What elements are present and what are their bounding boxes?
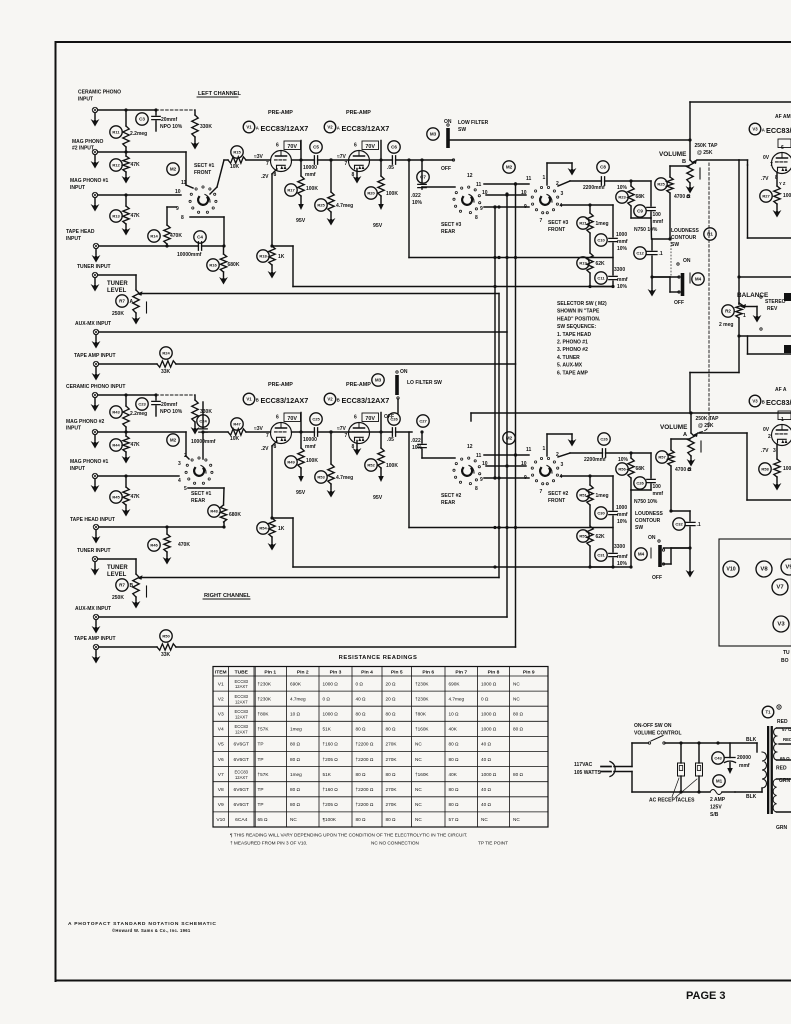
svg-text:¶ THIS READING WILL VARY DE: ¶ THIS READING WILL VARY DEPENDING UPON … [230,833,467,838]
wire feedback bus [293,286,613,288]
svg-text:BALANCE: BALANCE [737,292,769,299]
svg-text:mmf: mmf [617,554,628,560]
svg-text:0 Ω: 0 Ω [356,681,364,686]
svg-text:12AX7: 12AX7 [235,775,248,780]
svg-text:†80K: †80K [415,712,427,717]
wire plug bottom to fuse [614,771,632,773]
wire to loudness node [630,490,632,567]
svg-text:FRONT: FRONT [548,498,565,504]
wire aux-mx [99,616,507,618]
svg-text:TUNER: TUNER [107,281,128,287]
svg-text:NPO 10%: NPO 10% [160,409,183,415]
resistor R27 100K [760,190,772,202]
wire mag phono 1 [98,194,181,196]
svg-text:V1: V1 [246,397,252,402]
wire tuner input [98,558,136,560]
svg-text:Y Z: Y Z [779,181,786,186]
svg-text:ITEM: ITEM [215,670,227,676]
svg-text:mmf: mmf [617,239,628,245]
capacitor C24 10000mmf vertical [197,415,209,427]
svg-text:V4: V4 [218,727,224,733]
wire selector bus vertical 2 [498,294,500,578]
dashed gang line R1 [708,163,710,424]
svg-text:70V: 70V [287,416,297,422]
svg-text:10000: 10000 [303,165,317,171]
svg-text:R17: R17 [287,188,295,193]
svg-text:C4: C4 [197,235,203,240]
svg-text:20 Ω: 20 Ω [386,696,397,701]
switch M4 loudness [635,548,647,560]
svg-text:Pin 4: Pin 4 [361,670,373,676]
svg-text:2 meg: 2 meg [719,322,733,328]
svg-text:250K TAP: 250K TAP [696,416,720,422]
wire V1 cathode to R18 [272,441,277,446]
wire tuner input [98,274,136,276]
capacitor C4 10000mmf [194,231,206,243]
svg-text:9: 9 [480,206,483,212]
wire wafer bus 11 [484,183,529,185]
svg-text:V5: V5 [218,742,224,748]
svg-text:CERAMIC PHONO INPUT: CERAMIC PHONO INPUT [66,384,125,390]
svg-text:10 Ω: 10 Ω [449,712,460,717]
svg-text:SECT #3: SECT #3 [441,222,462,228]
svg-text:10%: 10% [617,246,628,252]
svg-text:7: 7 [770,162,773,168]
svg-text:Pin 5: Pin 5 [391,670,403,676]
capacitor C10 1000mmf [595,234,607,246]
wire to volume A [690,372,739,374]
resistor R48 680K riser [208,505,220,517]
wire loudness junction to switch [652,276,670,278]
svg-text:R54: R54 [259,526,267,531]
svg-text:R13: R13 [112,214,120,219]
svg-text:M2: M2 [506,165,513,170]
svg-text:Pin 9: Pin 9 [523,670,535,676]
svg-text:R57: R57 [658,455,666,460]
svg-text:100: 100 [783,193,791,199]
svg-text:VOLUME CONTROL: VOLUME CONTROL [634,731,682,737]
svg-text:270K: 270K [386,742,398,747]
svg-text:†160K: †160K [415,772,429,777]
svg-text:100K: 100K [306,186,318,192]
svg-text:Pin 7: Pin 7 [455,670,467,676]
resistor R54 1K [257,522,269,534]
svg-text:4: 4 [560,474,563,480]
svg-text:mmf: mmf [653,491,664,497]
svg-text:4.7meg: 4.7meg [336,203,353,209]
svg-text:1meg: 1meg [596,493,609,499]
svg-text:INPUT: INPUT [70,466,85,472]
svg-text:1meg: 1meg [290,727,302,732]
svg-text:@ 25K: @ 25K [698,423,714,429]
svg-text:M3: M3 [375,378,382,383]
svg-text:95V: 95V [296,490,306,496]
svg-text:80 Ω: 80 Ω [290,802,301,807]
svg-text:NC: NC [415,787,422,792]
svg-text:M2: M2 [170,167,177,172]
svg-text:0 Ω: 0 Ω [481,696,489,701]
svg-text:†230K: †230K [258,681,272,686]
svg-text:†230K: †230K [258,696,272,701]
svg-text:†2200 Ω: †2200 Ω [356,802,374,807]
svg-text:†2200 Ω: †2200 Ω [356,757,374,762]
svg-text:20mmf: 20mmf [161,402,177,408]
wire stage output bus [408,432,410,528]
svg-text:80 Ω: 80 Ω [356,817,367,822]
svg-text:3300: 3300 [614,267,625,273]
svg-text:M4: M4 [638,552,645,557]
svg-text:CERAMIC PHONO: CERAMIC PHONO [78,90,121,96]
svg-text:R43: R43 [112,410,120,415]
svg-text:R14: R14 [150,234,158,239]
svg-text:AUX-MX INPUT: AUX-MX INPUT [75,321,111,327]
capacitor C3 20mmf [136,113,148,125]
svg-text:4.7meg: 4.7meg [336,475,353,481]
svg-text:FRONT: FRONT [548,227,565,233]
svg-text:†57K: †57K [258,727,270,732]
svg-text:R11: R11 [112,130,120,135]
svg-text:R7: R7 [119,299,125,304]
svg-text:V1: V1 [246,125,252,130]
svg-text:C11: C11 [597,276,605,281]
svg-text:R25: R25 [317,203,325,208]
svg-text:HEAD" POSITION.: HEAD" POSITION. [557,316,601,322]
svg-text:LEVEL: LEVEL [107,288,127,294]
svg-text:mmf: mmf [305,172,316,178]
resistor R45 47K [110,491,122,503]
svg-text:OFF: OFF [441,166,451,172]
svg-text:11: 11 [526,447,532,453]
svg-text:65 Ω: 65 Ω [258,817,269,822]
capacitor C30 1000mmf [595,507,607,519]
svg-text:11: 11 [476,182,482,188]
svg-text:TP: TP [258,742,264,747]
svg-text:10%: 10% [617,519,628,525]
svg-text:C12: C12 [636,251,644,256]
svg-text:10000mmf: 10000mmf [191,439,216,445]
svg-text:9: 9 [176,206,179,212]
svg-text:CONTOUR: CONTOUR [671,235,697,241]
svg-text:LOUDNESS: LOUDNESS [635,511,663,517]
svg-text:V10: V10 [216,817,225,823]
svg-text:Pin 3: Pin 3 [330,670,342,676]
svg-text:B: B [762,399,765,404]
page border bottom [56,980,791,982]
svg-text:TU: TU [783,650,790,656]
svg-text:OFF: OFF [384,414,394,420]
svg-text:1000 Ω: 1000 Ω [481,681,497,686]
svg-text:R53: R53 [317,475,325,480]
capacitor C26 100mmf [634,477,646,489]
svg-text:80 Ω: 80 Ω [356,727,367,732]
svg-text:250K TAP: 250K TAP [695,143,719,149]
svg-text:.7V: .7V [761,448,769,454]
svg-text:40 Ω: 40 Ω [481,802,492,807]
svg-text:mmf: mmf [617,277,628,283]
svg-text:80 Ω: 80 Ω [449,787,460,792]
svg-text:N750 10%: N750 10% [634,499,658,505]
wire mag2 to wafer [185,432,187,456]
svg-text:80 Ω: 80 Ω [290,757,301,762]
wire dashed link [156,109,195,111]
svg-text:.05: .05 [387,437,394,443]
svg-text:V7: V7 [218,772,224,778]
svg-text:CONTOUR: CONTOUR [635,518,661,524]
svg-text:4.7meg: 4.7meg [449,696,465,701]
svg-text:117VAC: 117VAC [574,762,593,768]
wire selector bus vertical 1 [494,207,496,478]
wire ceramic phono [98,109,156,111]
svg-text:C3: C3 [139,117,145,122]
svg-text:mmf: mmf [653,219,664,225]
svg-text:80 Ω: 80 Ω [386,772,397,777]
svg-text:ECC83: ECC83 [235,724,249,729]
resistor R23 68K [616,191,628,203]
wire dashed link [156,394,195,396]
box V3 B [746,433,748,500]
svg-text:ECC83/12AX7: ECC83/12AX7 [342,124,390,133]
svg-text:B: B [256,397,259,402]
wire wafer pin1 to ground [546,434,548,456]
svg-text:R12: R12 [112,163,120,168]
svg-text:80 Ω: 80 Ω [290,742,301,747]
svg-text:2200mmf: 2200mmf [584,457,606,463]
svg-text:7: 7 [540,218,543,224]
svg-text:NC: NC [513,681,520,686]
svg-text:PRE-AMP: PRE-AMP [346,110,371,116]
svg-text:V2: V2 [327,125,333,130]
wire tape head [99,245,199,247]
svg-text:V9: V9 [785,565,791,571]
svg-text:1000: 1000 [616,505,627,511]
svg-text:6V6GT: 6V6GT [234,802,250,808]
svg-text:TAPE HEAD INPUT: TAPE HEAD INPUT [70,517,115,523]
svg-text:V2: V2 [327,397,333,402]
svg-text:V8: V8 [760,567,768,573]
svg-text:ECC83: ECC83 [235,709,249,714]
svg-text:LOW FILTER: LOW FILTER [458,120,489,126]
capacitor C7 .022 [417,171,429,183]
svg-text:R45: R45 [112,495,120,500]
svg-text:ON: ON [400,369,408,375]
svg-text:40K: 40K [449,727,458,732]
svg-text:≈3V: ≈3V [254,154,264,160]
resistor R11 2.2meg [110,126,122,138]
svg-text:11: 11 [526,176,532,182]
page border left [55,42,57,981]
svg-text:ON-OFF SW ON: ON-OFF SW ON [634,723,672,729]
svg-text:SECT #1: SECT #1 [191,491,212,497]
resistor R47 10K grid [231,418,243,430]
svg-text:1: 1 [543,446,546,452]
wiper travel mark [699,168,701,179]
svg-text:REV: REV [767,306,778,312]
wire wafer bus 10 [486,194,526,196]
wire selector bus vertical 3 [506,194,508,617]
svg-text:1000: 1000 [616,232,627,238]
svg-text:R1: R1 [707,232,713,237]
svg-text:1000 Ω: 1000 Ω [323,712,339,717]
svg-text:B: B [130,583,134,589]
svg-text:V6: V6 [218,757,224,763]
svg-text:REAR: REAR [441,500,456,506]
svg-text:PAGE 3: PAGE 3 [686,990,726,1002]
svg-text:TUBE: TUBE [235,670,249,676]
capacitor C27 .022 [417,415,429,427]
svg-text:V3: V3 [218,712,224,718]
svg-text:TP: TP [258,802,264,807]
svg-text:C27: C27 [419,419,427,424]
svg-text:†205 Ω: †205 Ω [323,802,339,807]
svg-text:6: 6 [276,143,279,149]
svg-text:C25: C25 [312,417,320,422]
svg-text:100: 100 [653,484,662,490]
svg-text:TAPE AMP INPUT: TAPE AMP INPUT [74,353,116,359]
svg-text:4: 4 [178,478,181,484]
svg-text:7: 7 [345,161,348,167]
svg-text:SW: SW [458,127,466,133]
svg-text:40 Ω: 40 Ω [481,787,492,792]
svg-text:R52: R52 [367,463,375,468]
triode V1 section [271,423,292,444]
wire wafer bus 9 [484,206,529,208]
svg-text:4: 4 [560,203,563,209]
fuse M1 2AMP [713,775,725,787]
svg-text:C5: C5 [313,145,319,150]
svg-text:6: 6 [354,415,357,421]
svg-text:NC: NC [415,802,422,807]
svg-text:2.2meg: 2.2meg [130,131,147,137]
svg-text:20mmf: 20mmf [161,117,177,123]
svg-text:M4: M4 [695,277,702,282]
svg-text:PRE-AMP: PRE-AMP [268,382,293,388]
svg-text:4.7meg: 4.7meg [290,696,306,701]
svg-text:330K: 330K [200,409,212,415]
svg-text:1: 1 [743,313,746,319]
svg-text:SHOWN IN "TAPE: SHOWN IN "TAPE [557,309,600,315]
resistor R44 47K [110,439,122,451]
svg-text:105 WATTS: 105 WATTS [574,770,602,776]
svg-text:40 Ω: 40 Ω [356,696,367,701]
svg-text:5: 5 [184,486,187,492]
svg-text:RED: RED [777,719,788,725]
svg-text:R16: R16 [209,263,217,268]
resistor R24 33K tape amp [160,347,172,359]
svg-text:6: 6 [276,415,279,421]
svg-text:100K: 100K [386,191,398,197]
svg-text:A: A [337,125,340,130]
plate volt box V3 A [778,139,791,148]
svg-text:3300: 3300 [614,544,625,550]
svg-text:C30: C30 [597,511,605,516]
svg-text:RIGHT CHANNEL: RIGHT CHANNEL [204,593,251,599]
wire cathode feedback [270,244,273,247]
svg-text:R25: R25 [657,182,665,187]
svg-text:ON: ON [648,535,656,541]
svg-text:ECC83: ECC83 [235,694,249,699]
triode V3 B [772,425,791,446]
rotary switch SECT #3 FRONT [503,161,515,173]
svg-text:MAG PHONO #1: MAG PHONO #1 [70,459,109,465]
resistor R56 68K [616,463,628,475]
svg-text:SW: SW [671,242,679,248]
resistor R50 33K tape amp [160,630,172,642]
resistor R25 4700 [655,178,667,190]
svg-text:REAR: REAR [441,229,456,235]
svg-text:80 Ω: 80 Ω [356,772,367,777]
wire tuner level wiper [141,293,499,295]
svg-text:20000: 20000 [737,755,751,761]
svg-text:NC: NC [415,757,422,762]
svg-text:47K: 47K [131,442,141,448]
svg-text:NC: NC [290,817,297,822]
svg-text:AF AM: AF AM [775,114,791,120]
svg-text:C23: C23 [138,402,146,407]
capacitor C11 3300mmf [595,272,607,284]
wire volume B wiper to V3 [697,159,739,161]
svg-text:†57K: †57K [258,772,270,777]
svg-text:80 Ω: 80 Ω [449,802,460,807]
svg-text:0V: 0V [763,427,770,433]
svg-text:62K: 62K [596,534,606,540]
svg-text:SECT #2: SECT #2 [548,491,569,497]
svg-text:125V: 125V [710,805,722,811]
svg-text:33K: 33K [161,652,171,658]
svg-text:1000 Ω: 1000 Ω [481,727,497,732]
triode V3 A [772,153,791,174]
svg-text:95V: 95V [296,218,306,224]
svg-text:470K: 470K [178,542,190,548]
resistor R53 4.7meg grid leak [315,471,327,483]
svg-text:R18: R18 [259,254,267,259]
svg-text:C7: C7 [420,175,426,180]
transformer T1 [762,706,774,718]
wire mag phono 2 [98,151,186,153]
svg-text:.2V: .2V [261,174,269,180]
svg-text:C9: C9 [637,209,643,214]
svg-text:≈7V: ≈7V [337,426,347,432]
resistor R49 100K plate load [285,456,297,468]
resistor R18 1K [257,250,269,262]
svg-text:SECT #1: SECT #1 [194,163,215,169]
svg-text:ECC83/12AX7: ECC83/12AX7 [342,396,390,405]
svg-text:10%: 10% [618,457,629,463]
svg-text:ECC83: ECC83 [235,679,249,684]
svg-text:©Howard W. Sams & Co., Inc. 19: ©Howard W. Sams & Co., Inc. 1961 [112,928,191,933]
svg-text:T1: T1 [766,710,772,715]
edge component bar 2 [784,345,791,353]
svg-text:57 Ω: 57 Ω [449,817,460,822]
filter switch M3 [427,128,439,140]
svg-text:R47: R47 [233,422,241,427]
svg-text:690K: 690K [290,681,302,686]
svg-text:12AX7: 12AX7 [235,684,248,689]
rotary switch SECT #3 REAR [459,210,461,212]
svg-text:INPUT: INPUT [78,97,93,103]
svg-text:A: A [683,432,687,438]
svg-text:690K: 690K [449,681,461,686]
wire V2 cathode ground [356,441,358,449]
svg-text:10: 10 [175,189,181,195]
svg-text:40 Ω: 40 Ω [481,757,492,762]
svg-text:40 Ω: 40 Ω [481,742,492,747]
capacitor C26 2200mmf [598,433,610,445]
svg-text:V10: V10 [726,567,735,573]
capacitor C6 .05 [388,141,400,153]
resistor R15 10K grid [231,146,243,158]
svg-text:M2: M2 [170,438,177,443]
svg-text:SW: SW [635,525,643,531]
